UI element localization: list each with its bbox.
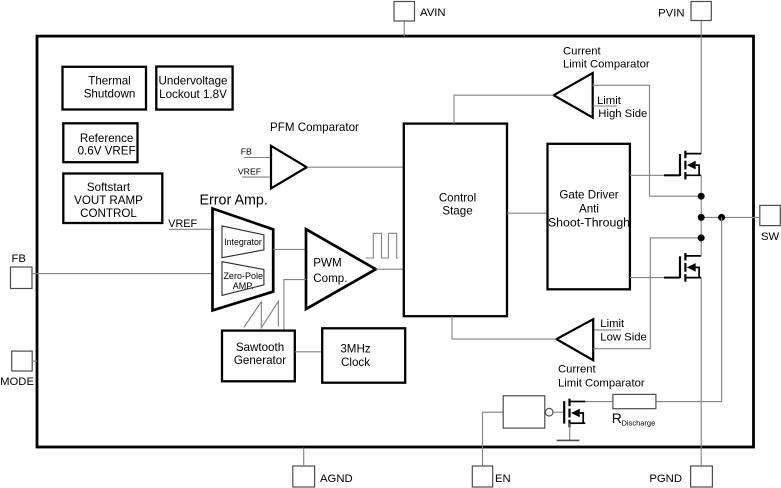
block Thermal Shutdown: [63, 67, 147, 110]
pin PGND: [691, 466, 713, 487]
svg-text:Current: Current: [563, 45, 602, 57]
transistor Q1 high-side MOSFET: [664, 151, 701, 180]
block Softstart VOUT RAMP CONTROL: [63, 174, 162, 224]
op-amp PFM comparator: [271, 146, 307, 189]
block Undervoltage Lockout: [156, 67, 232, 110]
block Gate Driver Anti Shoot-Through: [548, 144, 630, 289]
wire high-side limit stub: [593, 105, 617, 107]
sub-block Zero-Pole AMP.: [222, 262, 264, 296]
svg-text:0.6V VREF: 0.6V VREF: [78, 145, 136, 158]
wire discharge resistor tap: [656, 217, 722, 401]
svg-text:FB: FB: [241, 147, 252, 157]
svg-text:3MHz: 3MHz: [340, 342, 370, 355]
block 3MHz Clock: [322, 328, 405, 382]
svg-text:Sawtooth: Sawtooth: [236, 341, 284, 354]
wire PFM FB input stub: [244, 157, 271, 159]
wire PGND to low-side source: [700, 278, 702, 466]
svg-text:PFM Comparator: PFM Comparator: [270, 121, 359, 134]
pin EN: [472, 466, 492, 487]
svg-text:Current: Current: [558, 364, 597, 376]
svg-text:Integrator: Integrator: [224, 237, 262, 247]
ground: [557, 439, 580, 441]
block Reference 0.6V VREF: [63, 123, 137, 162]
svg-text:FB: FB: [12, 253, 26, 265]
op-amp error amplifier: [213, 209, 274, 311]
waveform sawtooth: [244, 301, 279, 328]
svg-text:Control: Control: [439, 192, 476, 205]
svg-text:VOUT RAMP: VOUT RAMP: [74, 194, 143, 207]
wire control stage to gate driver: [507, 212, 548, 214]
pin PVIN wire: [700, 21, 702, 154]
wire discharge drain to resistor: [585, 401, 613, 403]
svg-text:Limit: Limit: [600, 318, 625, 330]
svg-text:PVIN: PVIN: [658, 8, 684, 20]
wire VREF input stub: [169, 228, 213, 230]
block Control Stage: [404, 124, 507, 317]
op-amp PWM comparator: [306, 229, 376, 309]
svg-text:Thermal: Thermal: [88, 75, 131, 88]
svg-text:CONTROL: CONTROL: [80, 207, 137, 220]
svg-text:Shutdown: Shutdown: [84, 87, 136, 100]
svg-text:Clock: Clock: [341, 356, 370, 369]
pin AGND: [293, 466, 315, 487]
svg-text:AGND: AGND: [320, 473, 353, 485]
wire MODE stub: [32, 360, 37, 362]
svg-text:Shoot-Through: Shoot-Through: [548, 215, 630, 229]
node low-side sense junction: [698, 234, 705, 241]
svg-text:Limit Comparator: Limit Comparator: [563, 58, 650, 70]
op-amp high-side current limit comparator: [554, 73, 593, 118]
svg-text:Discharge: Discharge: [622, 419, 656, 428]
node high-side sense junction: [698, 193, 705, 200]
node SW junction: [698, 214, 705, 221]
pin FB: [11, 267, 33, 289]
waveform square wave: [366, 233, 399, 258]
wire high-side comparator sense input: [593, 85, 702, 196]
IC boundary: [37, 36, 754, 447]
block Sawtooth Generator: [222, 331, 295, 382]
wire PFM output to control stage: [307, 166, 404, 168]
transistor Q3 discharge MOSFET: [564, 399, 585, 428]
wire low-side comparator sense input: [593, 238, 701, 349]
wire inverter to discharge gate: [553, 411, 564, 413]
wire gate driver to high-side gate: [630, 174, 668, 176]
svg-text:Zero-Pole: Zero-Pole: [223, 271, 263, 281]
transistor Q2 low-side MOSFET: [664, 253, 701, 282]
svg-text:VREF: VREF: [238, 166, 261, 176]
node discharge tap junction: [718, 214, 725, 221]
wire sawtooth feed to PWM comparator: [284, 280, 306, 331]
svg-text:PGND: PGND: [649, 473, 682, 485]
svg-text:SW: SW: [761, 231, 780, 243]
wire discharge source to ground: [569, 423, 571, 440]
svg-text:Low Side: Low Side: [600, 332, 646, 344]
svg-text:MODE: MODE: [0, 376, 34, 388]
svg-text:Undervoltage: Undervoltage: [159, 75, 228, 88]
wire high-side comparator output to control stage: [454, 95, 554, 123]
wire SW rail upper: [700, 175, 702, 256]
svg-text:Error Amp.: Error Amp.: [200, 193, 268, 209]
svg-text:PWM: PWM: [313, 256, 341, 269]
pin AVIN: [394, 2, 415, 22]
svg-text:VREF: VREF: [168, 218, 197, 230]
svg-text:Limit: Limit: [597, 95, 622, 107]
svg-text:Gate Driver: Gate Driver: [559, 188, 618, 201]
svg-text:Softstart: Softstart: [87, 181, 131, 194]
svg-text:Comp.: Comp.: [313, 272, 347, 285]
svg-text:AMP.: AMP.: [233, 281, 254, 291]
pin MODE: [12, 351, 33, 371]
svg-text:Lockout 1.8V: Lockout 1.8V: [159, 88, 227, 101]
svg-text:R: R: [612, 410, 622, 426]
wire PWM output to control stage: [376, 268, 404, 270]
wire sawtooth generator to clock: [295, 351, 322, 353]
inverter gate: [503, 396, 545, 428]
svg-text:Limit Comparator: Limit Comparator: [558, 378, 645, 390]
wire low-side limit stub: [593, 329, 621, 331]
wire SW: [701, 216, 760, 218]
wire error amp output to PWM comparator: [273, 248, 306, 250]
wire gate driver to low-side gate: [630, 277, 668, 279]
resistor RDischarge: [613, 394, 656, 408]
svg-text:Reference: Reference: [80, 132, 134, 145]
svg-text:Generator: Generator: [234, 354, 286, 367]
pin AVIN wire: [403, 21, 405, 36]
wire EN to inverter: [483, 412, 504, 466]
wire AGND stub: [303, 448, 305, 467]
svg-text:Stage: Stage: [442, 205, 472, 218]
wire PFM VREF input stub: [242, 176, 271, 178]
wire low-side comparator output to control stage: [452, 316, 556, 339]
pin PVIN: [691, 2, 711, 21]
pin SW: [760, 205, 781, 225]
wire FB to error amp: [32, 273, 212, 275]
svg-text:EN: EN: [495, 473, 511, 485]
svg-text:High Side: High Side: [598, 108, 647, 120]
op-amp low-side current limit comparator: [556, 319, 593, 360]
svg-text:Anti: Anti: [579, 202, 599, 215]
svg-text:AVIN: AVIN: [420, 7, 446, 19]
sub-block Integrator: [222, 226, 264, 258]
